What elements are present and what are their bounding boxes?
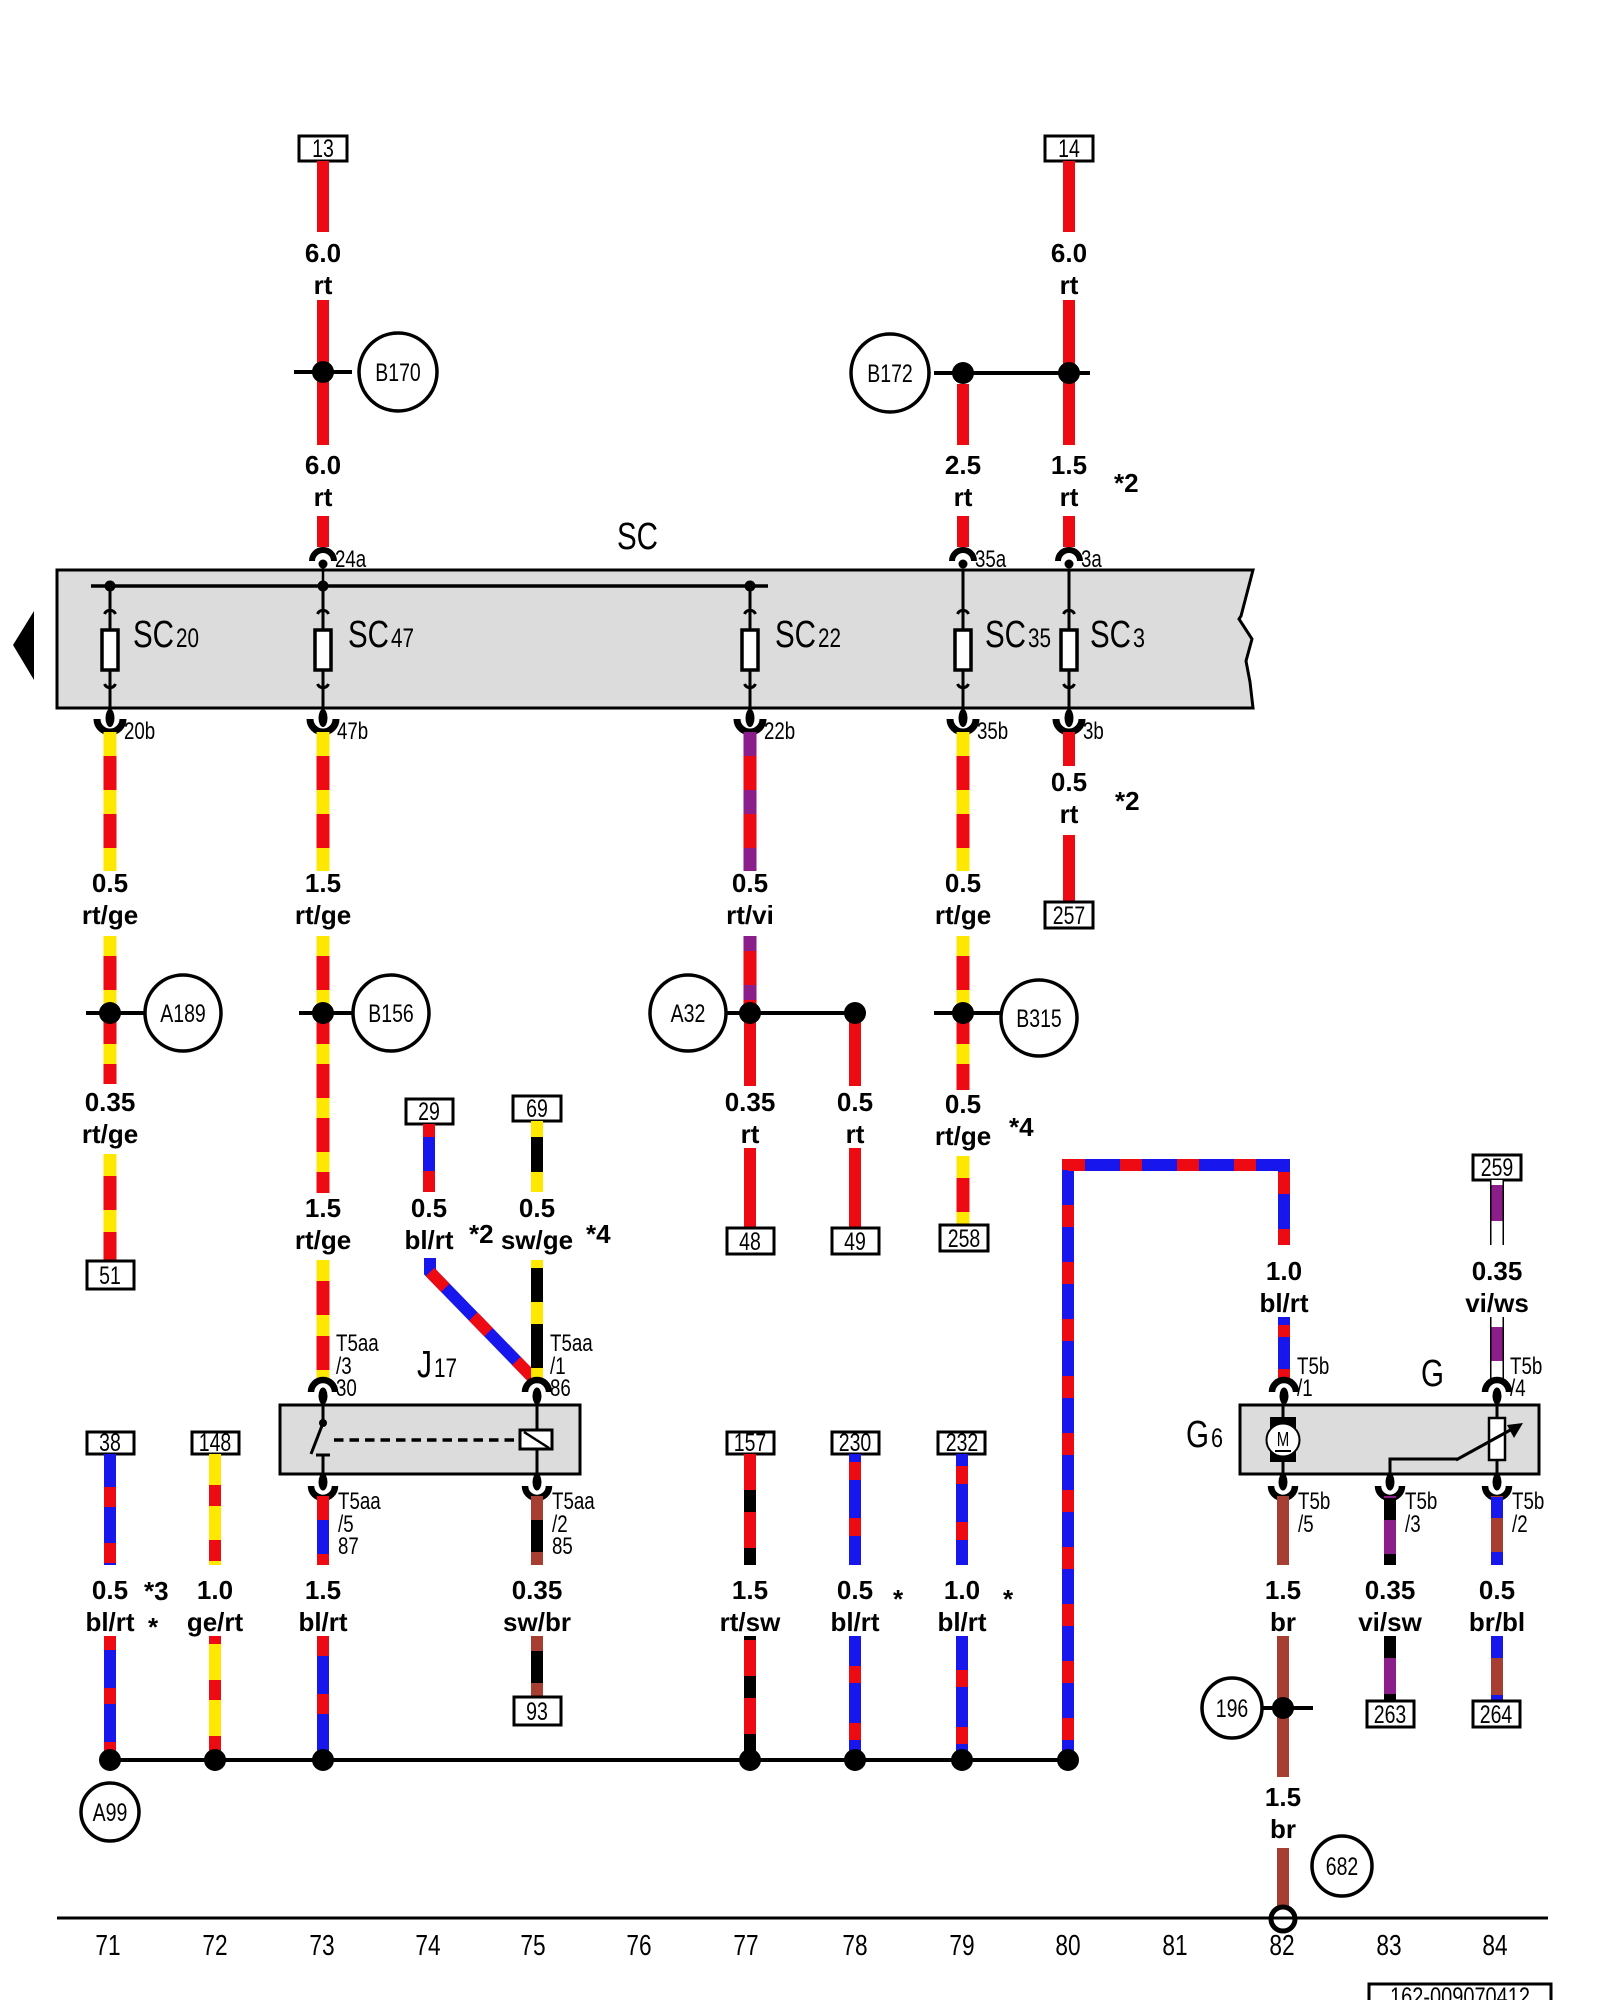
wire 2.5 rt to pin 35a	[957, 516, 969, 547]
wire 0.5 rt below A32 node	[849, 1013, 861, 1086]
svg-text:SC: SC	[133, 614, 174, 656]
svg-text:77: 77	[733, 1930, 758, 1962]
svg-text:22b: 22b	[764, 718, 795, 745]
terminal box 258	[940, 1225, 988, 1253]
svg-text:1.0: 1.0	[1266, 1256, 1302, 1286]
svg-text:38: 38	[99, 1429, 121, 1457]
svg-text:0.5: 0.5	[945, 1089, 981, 1119]
svg-text:0.35: 0.35	[512, 1575, 563, 1605]
terminal box 49	[832, 1228, 879, 1256]
svg-text:0.5: 0.5	[92, 1575, 128, 1605]
svg-text:0.5: 0.5	[1479, 1575, 1515, 1605]
svg-text:*3: *3	[144, 1576, 169, 1606]
svg-text:rt/sw: rt/sw	[720, 1607, 781, 1637]
svg-text:17: 17	[434, 1353, 457, 1383]
terminal box 14	[1045, 135, 1093, 163]
svg-text:bl/rt: bl/rt	[404, 1225, 453, 1255]
pin T5b/5	[1271, 1474, 1330, 1539]
wire 0.5 rt/ge below pin 35b	[957, 732, 970, 871]
wire 0.35 rt below A32 node	[744, 1013, 756, 1086]
svg-text:0.5: 0.5	[945, 868, 981, 898]
svg-text:86: 86	[550, 1375, 571, 1402]
pin 24a	[312, 546, 367, 586]
svg-text:SC: SC	[775, 614, 816, 656]
wire 1.5 rt/sw to ground bus	[744, 1636, 756, 1760]
svg-text:vi/ws: vi/ws	[1465, 1288, 1529, 1318]
wire 0.35 sw/br to box 93	[531, 1636, 543, 1697]
svg-text:rt/ge: rt/ge	[295, 1225, 351, 1255]
wire 1.5 bl/rt to ground bus	[317, 1636, 329, 1760]
relay J17 box	[280, 1405, 580, 1474]
svg-text:0.5: 0.5	[837, 1575, 873, 1605]
svg-text:30: 30	[336, 1375, 357, 1402]
connection circle A32	[650, 975, 726, 1051]
svg-text:rt/ge: rt/ge	[82, 900, 138, 930]
svg-text:1.0: 1.0	[944, 1575, 980, 1605]
svg-text:A32: A32	[671, 1000, 706, 1028]
svg-text:83: 83	[1376, 1930, 1401, 1962]
pin 35a	[952, 546, 1007, 573]
svg-text:bl/rt: bl/rt	[85, 1607, 134, 1637]
pin 30	[311, 1330, 379, 1405]
svg-text:75: 75	[520, 1930, 545, 1962]
terminal box 230	[832, 1429, 879, 1457]
wire 6.0 rt below B170	[317, 378, 329, 445]
terminal box 51	[87, 1261, 134, 1290]
track rail	[57, 1917, 1548, 1920]
wire 0.5 br/bl to box 264	[1491, 1636, 1503, 1701]
svg-text:B156: B156	[368, 1000, 414, 1028]
svg-text:B315: B315	[1016, 1005, 1062, 1033]
svg-text:35: 35	[1028, 623, 1051, 653]
svg-text:*: *	[1003, 1584, 1014, 1614]
svg-text:SC: SC	[617, 516, 658, 558]
wire 2.5 rt below B172	[957, 384, 969, 445]
wire 0.5 rt/ge to box 258	[957, 1156, 970, 1225]
wire 0.35 vi/ws to pin T5b/4	[1490, 1317, 1504, 1381]
svg-text:6.0: 6.0	[1051, 238, 1087, 268]
svg-text:0.5: 0.5	[411, 1193, 447, 1223]
svg-text:230: 230	[839, 1429, 872, 1457]
svg-text:0.5: 0.5	[837, 1087, 873, 1117]
svg-text:20b: 20b	[124, 718, 155, 745]
svg-text:rt: rt	[314, 270, 333, 300]
terminal box 259	[1473, 1154, 1521, 1182]
wire 0.5 sw/ge to pin 86	[531, 1260, 543, 1381]
node 79	[951, 1749, 973, 1771]
svg-text:76: 76	[626, 1930, 651, 1962]
fuse SC3	[1061, 570, 1145, 711]
node B170 junction	[294, 361, 352, 383]
wire 1.5 br below pin T5b/5	[1277, 1496, 1289, 1565]
pin T5b/2	[1485, 1474, 1544, 1539]
internal bus wire	[91, 584, 768, 588]
svg-text:bl/rt: bl/rt	[1259, 1288, 1308, 1318]
svg-text:*2: *2	[1115, 786, 1140, 816]
pin T5b/3	[1378, 1474, 1437, 1539]
wire 0.35 rt/ge through A189 node	[104, 936, 117, 1084]
terminal box 38	[87, 1429, 134, 1457]
wire 0.5 bl/rt to ground bus	[849, 1636, 861, 1760]
svg-text:3: 3	[1133, 623, 1145, 653]
wire 1.0 bl/rt to pin T5b/1	[1278, 1317, 1290, 1381]
svg-text:6: 6	[1211, 1423, 1223, 1453]
svg-text:rt: rt	[846, 1119, 865, 1149]
wire 0.5 rt/ge through B315 node	[957, 936, 970, 1090]
node bus-SC47	[318, 581, 329, 592]
pin 47b	[310, 709, 368, 745]
node 72	[204, 1749, 226, 1771]
node 77	[739, 1749, 761, 1771]
svg-text:/3: /3	[1405, 1511, 1421, 1538]
pin 35b	[950, 709, 1008, 745]
svg-text:3b: 3b	[1083, 718, 1104, 745]
pin 86	[525, 1330, 593, 1405]
svg-text:1.5: 1.5	[305, 868, 341, 898]
pin T5b/1	[1272, 1353, 1329, 1405]
node 196 junction	[1253, 1697, 1313, 1719]
svg-text:*2: *2	[469, 1219, 494, 1249]
svg-text:264: 264	[1480, 1701, 1513, 1729]
svg-text:0.35: 0.35	[725, 1087, 776, 1117]
fuse box SC (bus bar strip)	[57, 570, 1253, 708]
terminal box 232	[938, 1429, 985, 1457]
wire 0.5 rt to box 257	[1063, 835, 1075, 902]
node 71	[99, 1749, 121, 1771]
relay switch contact	[311, 1404, 330, 1475]
svg-text:84: 84	[1482, 1930, 1507, 1962]
svg-text:0.35: 0.35	[85, 1087, 136, 1117]
svg-text:72: 72	[202, 1930, 227, 1962]
wire 0.35 vi/ws below box 259	[1490, 1180, 1504, 1245]
svg-text:24a: 24a	[335, 546, 367, 573]
node bus-SC22	[745, 581, 756, 592]
node 78	[844, 1749, 866, 1771]
svg-text:682: 682	[1326, 1853, 1359, 1881]
svg-text:29: 29	[418, 1098, 440, 1126]
terminal box 69	[513, 1095, 561, 1123]
svg-text:0.5: 0.5	[519, 1193, 555, 1223]
svg-text:SC: SC	[348, 614, 389, 656]
svg-text:1.5: 1.5	[1265, 1782, 1301, 1812]
svg-text:rt: rt	[954, 482, 973, 512]
svg-text:257: 257	[1053, 902, 1086, 930]
wire 1.5 bl/rt below pin 87	[317, 1496, 329, 1565]
terminal box 13	[299, 135, 347, 163]
svg-text:74: 74	[415, 1930, 440, 1962]
svg-text:G: G	[1421, 1353, 1444, 1395]
svg-text:13: 13	[312, 135, 334, 163]
svg-text:87: 87	[338, 1533, 359, 1560]
svg-text:263: 263	[1374, 1701, 1407, 1729]
node 80	[1057, 1749, 1079, 1771]
wire 6.0 rt to B170	[317, 300, 329, 366]
svg-text:A189: A189	[160, 1000, 206, 1028]
wire 1.0 bl/rt below box 232	[956, 1454, 968, 1565]
pin T5b/4	[1485, 1353, 1542, 1405]
svg-text:vi/sw: vi/sw	[1358, 1607, 1422, 1637]
ground point circle A99	[81, 1783, 139, 1841]
svg-text:81: 81	[1162, 1930, 1187, 1962]
svg-text:35b: 35b	[977, 718, 1008, 745]
generator G box	[1240, 1405, 1539, 1474]
wire 1.0 bl/rt to ground bus	[956, 1636, 968, 1760]
svg-text:69: 69	[526, 1095, 548, 1123]
ground circle 682	[1312, 1836, 1372, 1896]
pin 3b	[1056, 709, 1104, 745]
terminal box 29	[406, 1098, 453, 1126]
node A32 junctions	[726, 1002, 866, 1024]
svg-text:80: 80	[1055, 1930, 1080, 1962]
svg-text:*: *	[148, 1612, 159, 1642]
svg-text:/1: /1	[1297, 1375, 1313, 1402]
svg-text:6.0: 6.0	[305, 450, 341, 480]
svg-text:0.5: 0.5	[732, 868, 768, 898]
wire 1.5 rt/sw below box 157	[744, 1454, 756, 1565]
svg-text:232: 232	[946, 1429, 979, 1457]
svg-text:1.5: 1.5	[1051, 450, 1087, 480]
svg-text:14: 14	[1058, 135, 1080, 163]
svg-text:*: *	[893, 1584, 904, 1614]
svg-text:/4: /4	[1510, 1375, 1526, 1402]
fuse SC20	[102, 586, 199, 711]
wire 6.0 rt through B172 node	[1063, 300, 1075, 445]
node A189 junction	[86, 1002, 146, 1024]
terminal box 157	[727, 1429, 774, 1457]
wire 0.5 br/bl below pin T5b/2	[1491, 1496, 1503, 1565]
connection circle B170	[359, 333, 437, 411]
svg-text:rt: rt	[1060, 799, 1079, 829]
node bus-SC20	[105, 581, 116, 592]
wire 0.35 sw/br below pin 85	[531, 1496, 543, 1565]
wire 6.0 rt from 13	[317, 161, 329, 232]
svg-text:SC: SC	[1090, 614, 1131, 656]
svg-text:35a: 35a	[975, 546, 1007, 573]
svg-text:*4: *4	[586, 1219, 611, 1249]
terminal box 263	[1367, 1701, 1414, 1729]
svg-text:*4: *4	[1009, 1112, 1034, 1142]
wire 6.0 rt from 14	[1063, 161, 1075, 232]
pin 3a	[1058, 546, 1102, 573]
connection circle 196	[1202, 1678, 1262, 1738]
svg-text:/2: /2	[1512, 1511, 1528, 1538]
svg-text:sw/br: sw/br	[503, 1607, 571, 1637]
svg-text:sw/ge: sw/ge	[501, 1225, 573, 1255]
pin 20b	[97, 709, 155, 745]
svg-text:49: 49	[844, 1228, 866, 1256]
wire 1.5 rt/ge to pin 30	[317, 1260, 330, 1381]
wire 1.5 rt/ge through B156 node	[317, 936, 330, 1193]
svg-text:bl/rt: bl/rt	[298, 1607, 347, 1637]
wire 0.5 bl/rt below box 29	[423, 1124, 435, 1192]
wire 6.0 rt to pin 24a	[317, 516, 329, 547]
svg-text:1.5: 1.5	[1265, 1575, 1301, 1605]
svg-text:73: 73	[309, 1930, 334, 1962]
svg-text:196: 196	[1216, 1695, 1249, 1723]
fuse SC22	[742, 586, 841, 711]
rheostat (sender) symbol	[1456, 1404, 1523, 1475]
terminal box 93	[514, 1697, 561, 1726]
wire 1.0 ge/rt to ground bus	[209, 1636, 221, 1760]
svg-text:rt: rt	[741, 1119, 760, 1149]
svg-text:ge/rt: ge/rt	[187, 1607, 244, 1637]
node B172 junctions	[934, 362, 1090, 384]
svg-text:rt/ge: rt/ge	[82, 1119, 138, 1149]
wire 0.5 rt/vi to A32 node	[744, 936, 757, 1013]
svg-text:71: 71	[95, 1930, 120, 1962]
relay actuation dashed link	[334, 1438, 520, 1442]
svg-text:1.5: 1.5	[732, 1575, 768, 1605]
svg-text:B170: B170	[375, 359, 421, 387]
svg-text:rt/ge: rt/ge	[935, 1121, 991, 1151]
connection circle B172	[851, 334, 929, 412]
terminal box 257	[1045, 902, 1093, 930]
svg-text:1.5: 1.5	[305, 1193, 341, 1223]
svg-text:J: J	[417, 1344, 432, 1386]
wire 0.5 bl/rt below box 38	[104, 1454, 116, 1565]
ground bus wire	[110, 1758, 1068, 1762]
svg-text:0.5: 0.5	[1051, 767, 1087, 797]
svg-text:rt/ge: rt/ge	[295, 900, 351, 930]
fuse SC47	[315, 586, 414, 711]
svg-text:rt/vi: rt/vi	[726, 900, 774, 930]
wire 0.5 sw/ge below box 69	[531, 1121, 543, 1192]
terminal box 264	[1473, 1701, 1520, 1729]
svg-text:*2: *2	[1114, 468, 1139, 498]
internal tap wire to pin T5b/3	[1390, 1459, 1458, 1475]
svg-text:258: 258	[948, 1225, 981, 1253]
svg-text:rt: rt	[1060, 482, 1079, 512]
pin 22b	[737, 709, 795, 745]
left continuation arrow	[13, 611, 34, 680]
terminal box 148	[192, 1429, 239, 1457]
svg-text:SC: SC	[985, 614, 1026, 656]
connection circle A189	[145, 975, 221, 1051]
svg-text:1.0: 1.0	[197, 1575, 233, 1605]
svg-text:B172: B172	[867, 360, 913, 388]
svg-text:259: 259	[1481, 1154, 1514, 1182]
terminal box 48	[727, 1228, 774, 1256]
relay coil	[520, 1404, 552, 1475]
node B156 junction	[299, 1002, 359, 1024]
svg-text:rt: rt	[314, 482, 333, 512]
wire 0.5 rt/ge below pin 20b	[104, 732, 117, 871]
wire 0.5 rt/vi below pin 22b	[744, 732, 757, 871]
svg-text:br: br	[1270, 1607, 1296, 1637]
wire 1.5 rt to pin 3a	[1063, 516, 1075, 547]
svg-text:93: 93	[526, 1698, 548, 1726]
svg-text:br/bl: br/bl	[1469, 1607, 1525, 1637]
wire 0.5 rt to box 49	[849, 1148, 861, 1228]
svg-text:rt: rt	[1060, 270, 1079, 300]
svg-text:bl/rt: bl/rt	[830, 1607, 879, 1637]
wire 0.35 vi/sw to box 263	[1384, 1636, 1396, 1701]
wire 0.35 rt/ge to box 51	[104, 1154, 117, 1261]
svg-text:48: 48	[739, 1228, 761, 1256]
svg-text:0.5: 0.5	[92, 868, 128, 898]
svg-text:85: 85	[552, 1533, 573, 1560]
svg-text:bl/rt: bl/rt	[937, 1607, 986, 1637]
svg-text:A99: A99	[93, 1799, 128, 1827]
svg-text:0.35: 0.35	[1365, 1575, 1416, 1605]
svg-text:47b: 47b	[337, 718, 368, 745]
svg-text:78: 78	[842, 1930, 867, 1962]
wire 1.5 rt/ge below pin 47b	[317, 732, 330, 871]
wire 1.5 br to ground	[1277, 1848, 1289, 1907]
svg-text:79: 79	[949, 1930, 974, 1962]
svg-text:2.5: 2.5	[945, 450, 981, 480]
svg-text:1.5: 1.5	[305, 1575, 341, 1605]
track numbers 71-84	[95, 1930, 1507, 1962]
ground terminal on rail	[1271, 1907, 1295, 1931]
pin 87	[311, 1474, 381, 1561]
svg-text:162-009070412: 162-009070412	[1390, 1983, 1530, 2000]
wire 0.35 vi/sw below pin T5b/3	[1384, 1496, 1396, 1565]
wire 0.5 rt below pin 3b	[1063, 732, 1075, 766]
svg-text:0.35: 0.35	[1472, 1256, 1523, 1286]
svg-text:G: G	[1186, 1414, 1209, 1456]
svg-text:/5: /5	[1298, 1511, 1314, 1538]
svg-text:47: 47	[391, 623, 414, 653]
svg-text:20: 20	[176, 623, 199, 653]
svg-text:51: 51	[99, 1262, 121, 1290]
svg-text:157: 157	[734, 1429, 767, 1457]
connection circle B315	[1001, 980, 1077, 1056]
svg-text:6.0: 6.0	[305, 238, 341, 268]
wire 1.5 br through node 196	[1277, 1636, 1289, 1777]
svg-text:22: 22	[818, 623, 841, 653]
diagram id box 162-009070412	[1369, 1983, 1551, 2000]
wire 0.35 rt to box 48	[744, 1148, 756, 1228]
wire 1.0 bl/rt L-run from node 80	[1068, 1165, 1284, 1760]
wire 0.5 bl/rt below box 230	[849, 1454, 861, 1565]
svg-text:rt/ge: rt/ge	[935, 900, 991, 930]
wire 0.5 bl/rt to ground bus	[104, 1636, 116, 1760]
motor G6 symbol	[1267, 1404, 1300, 1475]
fuse SC35	[955, 570, 1051, 711]
svg-text:3a: 3a	[1081, 546, 1102, 573]
node B315 junction	[934, 1002, 1001, 1024]
connection circle B156	[353, 975, 429, 1051]
svg-text:br: br	[1270, 1814, 1296, 1844]
wire 0.5 bl/rt diagonal to pin 86	[430, 1258, 533, 1378]
wire 1.0 ge/rt below box 148	[209, 1454, 221, 1565]
node 73	[312, 1749, 334, 1771]
svg-text:M: M	[1277, 1429, 1290, 1451]
pin 85	[525, 1474, 595, 1561]
svg-text:82: 82	[1269, 1930, 1294, 1962]
svg-text:148: 148	[199, 1429, 232, 1457]
